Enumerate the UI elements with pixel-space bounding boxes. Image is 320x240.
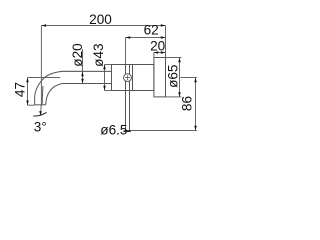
62 left — [126, 36, 131, 39]
spout tube bottom — [46, 84, 112, 105]
svg-text:62: 62 — [144, 23, 159, 38]
20 arrows — [154, 51, 158, 54]
technical dimension drawing: wall-mounted basin spout — [0, 0, 213, 175]
screw circle — [124, 74, 132, 82]
dim line 200 — [41, 25, 165, 27]
ext line left (outlet axis) + 3deg leader — [40, 26, 42, 105]
svg-text:200: 200 — [89, 12, 112, 27]
flange rect — [154, 58, 166, 97]
svg-text:3°: 3° — [34, 119, 47, 134]
dia43 arrows — [103, 65, 106, 70]
86 arrows — [194, 78, 197, 83]
ext line 62 left — [125, 38, 127, 65]
dim line dia20 — [82, 49, 84, 84]
pipe bottom tick — [123, 130, 130, 132]
svg-text:ø20: ø20 — [70, 43, 85, 67]
body internal joint line — [132, 65, 134, 91]
dim line 47 — [27, 78, 29, 106]
svg-text:ø6.5: ø6.5 — [100, 122, 127, 137]
svg-text:47: 47 — [13, 82, 28, 97]
stem / pipe lines — [125, 65, 127, 132]
3deg angle arc — [33, 112, 46, 116]
arrowheads — [26, 24, 197, 130]
dim line 20 — [154, 52, 166, 54]
3deg arrow — [39, 111, 42, 116]
dim line dia43 — [104, 65, 106, 91]
faucet outline — [35, 58, 166, 132]
svg-text:ø43: ø43 — [91, 43, 106, 66]
outlet inner bore line — [41, 86, 44, 105]
200/62 right — [161, 24, 166, 27]
svg-text:20: 20 — [150, 38, 166, 53]
dim line 62 — [126, 37, 166, 39]
dia20 arrows — [81, 72, 84, 77]
dim line 86 — [195, 78, 197, 131]
body rect — [112, 65, 154, 91]
svg-text:ø65: ø65 — [166, 64, 181, 87]
svg-text:86: 86 — [179, 96, 194, 111]
200 left — [41, 24, 46, 27]
outlet bottom — [35, 104, 46, 106]
dia65 arrows — [178, 58, 181, 63]
spout tube top — [35, 71, 112, 105]
dim line dia65 — [179, 58, 181, 97]
47 arrows — [26, 78, 29, 83]
ext line right (wall plane) — [165, 26, 167, 58]
